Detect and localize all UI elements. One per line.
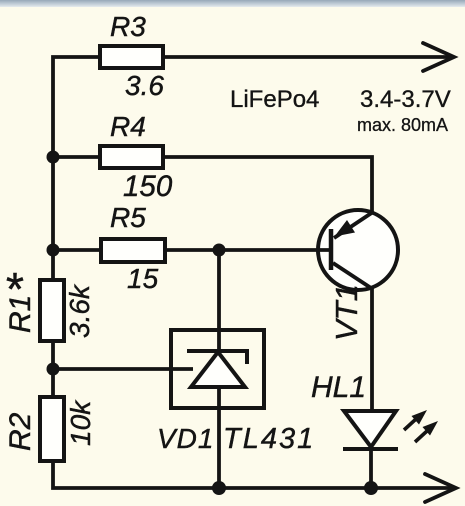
- resistor R3: [100, 46, 163, 68]
- svg-text:*: *: [6, 263, 24, 315]
- resistor R5: [101, 239, 165, 262]
- svg-text:15: 15: [127, 263, 159, 294]
- junction dot TL431-bottom: [212, 481, 226, 495]
- LED light arrow 2: [415, 421, 438, 442]
- wire: R5 to transistor base: [165, 248, 331, 252]
- wire: R3 output to arrow: [164, 55, 452, 59]
- resistor R1: [40, 280, 64, 341]
- svg-text:HL1: HL1: [311, 371, 366, 404]
- svg-text:TL431: TL431: [223, 423, 315, 455]
- junction dot LED-bottom: [364, 481, 378, 495]
- output arrow bottom: [425, 474, 456, 502]
- wire: LED to bottom rail: [369, 449, 373, 488]
- svg-text:LiFePo4: LiFePo4: [230, 86, 319, 113]
- voltage reference VD1 TL431: [171, 330, 264, 410]
- svg-text:10k: 10k: [65, 399, 96, 446]
- LED HL1: [343, 411, 398, 449]
- wire: divider to TL431 ref: [53, 367, 193, 371]
- wire: transistor collector to LED: [370, 288, 374, 412]
- resistor R4: [100, 146, 163, 168]
- LED light arrow 1: [404, 410, 427, 430]
- svg-text:VD1: VD1: [157, 423, 214, 454]
- svg-text:3.4-3.7V: 3.4-3.7V: [360, 86, 451, 113]
- wire: TL431 to bottom rail: [217, 410, 221, 488]
- wire: junction down to TL431: [217, 250, 221, 330]
- transistor VT1: [318, 210, 398, 290]
- wire: rail to R4: [53, 155, 100, 159]
- svg-text:3.6: 3.6: [125, 70, 164, 101]
- svg-text:150: 150: [123, 170, 173, 203]
- svg-text:max. 80mA: max. 80mA: [357, 115, 448, 135]
- svg-text:VT1: VT1: [329, 284, 364, 341]
- svg-text:3.6k: 3.6k: [64, 283, 95, 338]
- svg-text:R5: R5: [110, 202, 146, 233]
- svg-text:R2: R2: [4, 412, 37, 451]
- junction dot divider: [47, 363, 60, 376]
- output arrow top: [423, 43, 454, 71]
- svg-text:R3: R3: [110, 11, 146, 42]
- wire: rail to R5: [53, 248, 101, 252]
- wire: R2 to bottom rail: [53, 461, 454, 488]
- junction dot base-TL431: [213, 244, 226, 257]
- svg-text:R4: R4: [110, 111, 146, 142]
- wire: R4 to transistor emitter: [164, 157, 372, 212]
- junction dot rail-R5: [47, 244, 60, 257]
- resistor R2: [40, 397, 64, 461]
- wire: R1 to R2: [51, 341, 55, 397]
- junction dot rail-R4: [47, 151, 60, 164]
- wire: left rail vertical with top corner to R3: [53, 57, 100, 278]
